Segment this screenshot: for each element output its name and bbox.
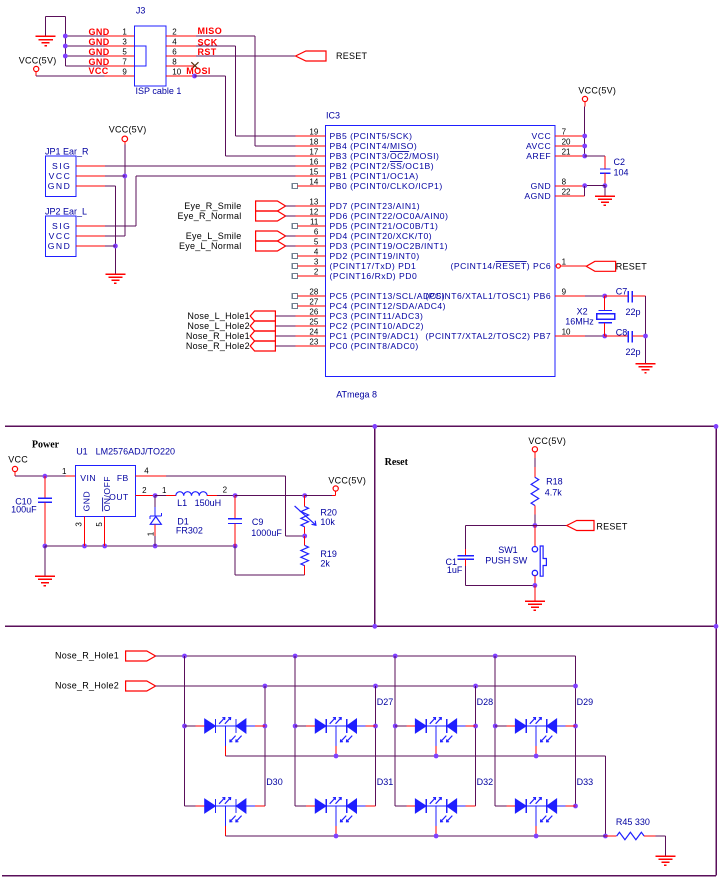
svg-text:JP2 Ear_L: JP2 Ear_L — [45, 207, 87, 217]
svg-text:23: 23 — [309, 337, 318, 346]
svg-text:D27: D27 — [377, 697, 394, 707]
svg-text:GND: GND — [89, 27, 110, 37]
svg-text:4: 4 — [144, 466, 149, 475]
svg-text:PC2 (PCINT10/ADC2): PC2 (PCINT10/ADC2) — [330, 321, 424, 331]
svg-text:18: 18 — [309, 137, 318, 146]
svg-text:PD4 (PCINT20/XCK/T0): PD4 (PCINT20/XCK/T0) — [330, 231, 433, 241]
svg-text:AREF: AREF — [526, 151, 551, 161]
svg-text:28: 28 — [309, 287, 318, 296]
svg-text:PC0 (PCINT8/ADC0): PC0 (PCINT8/ADC0) — [330, 341, 419, 351]
svg-text:Reset: Reset — [385, 457, 409, 468]
svg-text:LM2576ADJ/TO220: LM2576ADJ/TO220 — [96, 447, 175, 457]
svg-text:(PCINT7/XTAL2/TOSC2) PB7: (PCINT7/XTAL2/TOSC2) PB7 — [425, 331, 551, 341]
svg-text:C7: C7 — [616, 286, 628, 296]
svg-text:2: 2 — [314, 267, 319, 276]
svg-text:Eye_L_Normal: Eye_L_Normal — [179, 241, 242, 251]
svg-text:24: 24 — [309, 327, 318, 336]
svg-text:AGND: AGND — [524, 191, 551, 201]
svg-text:13: 13 — [309, 197, 318, 206]
svg-text:5: 5 — [122, 47, 127, 56]
svg-text:PB4 (PCINT4/MISO): PB4 (PCINT4/MISO) — [330, 141, 418, 151]
svg-text:PD3 (PCINT19/OC2B/INT1): PD3 (PCINT19/OC2B/INT1) — [330, 241, 448, 251]
svg-text:SIG: SIG — [52, 161, 71, 171]
svg-text:IC3: IC3 — [326, 111, 340, 121]
svg-text:27: 27 — [309, 297, 318, 306]
svg-text:PC4 (PCINT12/SDA/ADC4): PC4 (PCINT12/SDA/ADC4) — [330, 301, 447, 311]
svg-text:FB: FB — [117, 473, 129, 483]
svg-text:C9: C9 — [252, 517, 264, 527]
svg-text:PB1 (PCINT1/OC1A): PB1 (PCINT1/OC1A) — [330, 171, 419, 181]
svg-text:2: 2 — [223, 486, 228, 495]
svg-text:1: 1 — [146, 531, 155, 536]
svg-text:20: 20 — [562, 137, 571, 146]
svg-text:MISO: MISO — [198, 26, 223, 36]
svg-text:(PCINT17/TxD) PD1: (PCINT17/TxD) PD1 — [330, 261, 417, 271]
svg-text:9: 9 — [122, 67, 127, 76]
svg-text:2k: 2k — [320, 558, 330, 568]
svg-text:26: 26 — [309, 307, 318, 316]
svg-text:VCC(5V): VCC(5V) — [578, 86, 616, 96]
svg-text:7: 7 — [122, 57, 127, 66]
svg-text:Eye_L_Smile: Eye_L_Smile — [186, 231, 242, 241]
svg-text:Nose_R_Hole2: Nose_R_Hole2 — [55, 681, 119, 691]
svg-text:25: 25 — [309, 317, 318, 326]
svg-text:14: 14 — [309, 177, 318, 186]
svg-text:22p: 22p — [626, 347, 641, 357]
svg-text:VCC(5V): VCC(5V) — [528, 436, 566, 446]
svg-text:GND: GND — [81, 491, 91, 512]
svg-text:VCC(5V): VCC(5V) — [19, 55, 57, 65]
svg-text:X2: X2 — [577, 306, 588, 316]
svg-text:D30: D30 — [266, 777, 283, 787]
svg-text:4.7k: 4.7k — [545, 487, 563, 497]
svg-text:19: 19 — [309, 127, 318, 136]
svg-text:R45 330: R45 330 — [616, 817, 650, 827]
svg-text:(PCINT14/RESET) PC6: (PCINT14/RESET) PC6 — [450, 261, 551, 271]
svg-text:100uF: 100uF — [11, 505, 37, 515]
svg-text:Nose_R_Hole1: Nose_R_Hole1 — [186, 331, 250, 341]
svg-text:RESET: RESET — [596, 521, 628, 531]
svg-text:RESET: RESET — [616, 261, 648, 271]
svg-text:6: 6 — [314, 227, 319, 236]
svg-text:GND: GND — [89, 47, 110, 57]
svg-text:R18: R18 — [546, 477, 563, 487]
svg-text:D33: D33 — [577, 777, 594, 787]
svg-text:PD5 (PCINT21/OC0B/T1): PD5 (PCINT21/OC0B/T1) — [330, 221, 439, 231]
svg-text:PB0 (PCINT0/CLKO/ICP1): PB0 (PCINT0/CLKO/ICP1) — [330, 181, 443, 191]
svg-text:ON/OFF: ON/OFF — [102, 476, 112, 511]
svg-text:4: 4 — [172, 37, 177, 46]
svg-text:10k: 10k — [320, 517, 335, 527]
svg-text:RST: RST — [198, 47, 217, 57]
svg-text:VCC(5V): VCC(5V) — [109, 125, 147, 135]
svg-text:3: 3 — [74, 522, 83, 527]
svg-text:(PCINT6/XTAL1/TOSC1) PB6: (PCINT6/XTAL1/TOSC1) PB6 — [425, 291, 551, 301]
svg-text:SW1: SW1 — [498, 545, 518, 555]
svg-text:VCC: VCC — [532, 131, 552, 141]
svg-text:ATmega 8: ATmega 8 — [336, 390, 377, 400]
svg-text:150uH: 150uH — [195, 498, 222, 508]
svg-text:16MHz: 16MHz — [565, 317, 594, 327]
svg-text:17: 17 — [309, 147, 318, 156]
svg-text:3: 3 — [122, 37, 127, 46]
svg-text:16: 16 — [309, 157, 318, 166]
svg-text:22p: 22p — [626, 307, 641, 317]
svg-text:2: 2 — [172, 27, 177, 36]
svg-text:104: 104 — [614, 167, 629, 177]
svg-text:VCC: VCC — [49, 171, 72, 181]
svg-text:12: 12 — [309, 207, 318, 216]
svg-text:GND: GND — [48, 181, 72, 191]
svg-text:Nose_L_Hole1: Nose_L_Hole1 — [187, 311, 250, 321]
svg-text:3: 3 — [314, 257, 319, 266]
svg-text:FR302: FR302 — [176, 525, 203, 535]
svg-text:1: 1 — [122, 27, 127, 36]
svg-text:SCK: SCK — [198, 37, 218, 47]
svg-text:8: 8 — [562, 177, 567, 186]
svg-text:PB3 (PCINT3/OC2/MOSI): PB3 (PCINT3/OC2/MOSI) — [330, 151, 440, 161]
svg-text:SIG: SIG — [52, 221, 71, 231]
svg-text:7: 7 — [562, 127, 567, 136]
svg-text:ISP cable 1: ISP cable 1 — [136, 86, 182, 96]
svg-text:GND: GND — [48, 241, 72, 251]
svg-text:15: 15 — [309, 167, 318, 176]
svg-text:(PCINT16/RxD) PD0: (PCINT16/RxD) PD0 — [330, 271, 418, 281]
svg-text:6: 6 — [172, 47, 177, 56]
svg-text:VCC(5V): VCC(5V) — [328, 476, 366, 486]
svg-text:PUSH SW: PUSH SW — [485, 556, 528, 566]
svg-text:VCC: VCC — [49, 231, 72, 241]
svg-text:1uF: 1uF — [447, 565, 463, 575]
svg-text:C8: C8 — [616, 327, 628, 337]
svg-text:1: 1 — [62, 467, 67, 476]
svg-text:AVCC: AVCC — [526, 141, 551, 151]
svg-text:Eye_R_Normal: Eye_R_Normal — [177, 211, 241, 221]
svg-text:Nose_L_Hole2: Nose_L_Hole2 — [187, 321, 250, 331]
svg-text:PD6 (PCINT22/OC0A/AIN0): PD6 (PCINT22/OC0A/AIN0) — [330, 211, 449, 221]
svg-text:R19: R19 — [320, 549, 337, 559]
svg-text:9: 9 — [562, 287, 567, 296]
svg-text:11: 11 — [310, 217, 319, 226]
svg-text:Nose_R_Hole1: Nose_R_Hole1 — [55, 651, 119, 661]
svg-text:R20: R20 — [320, 507, 337, 517]
svg-text:VCC: VCC — [8, 455, 28, 465]
svg-text:VIN: VIN — [80, 473, 96, 483]
svg-text:D31: D31 — [377, 777, 394, 787]
svg-text:1: 1 — [562, 257, 567, 266]
svg-text:VCC: VCC — [89, 66, 109, 76]
svg-text:5: 5 — [314, 237, 319, 246]
svg-text:1: 1 — [162, 486, 167, 495]
svg-text:U1: U1 — [76, 447, 88, 457]
svg-text:RESET: RESET — [336, 51, 368, 61]
svg-text:JP1 Ear_R: JP1 Ear_R — [45, 147, 89, 157]
svg-text:4: 4 — [314, 247, 319, 256]
svg-text:1000uF: 1000uF — [251, 528, 282, 538]
svg-text:MOSI: MOSI — [186, 66, 211, 76]
svg-text:PC3 (PCINT11/ADC3): PC3 (PCINT11/ADC3) — [330, 311, 424, 321]
svg-text:5: 5 — [95, 522, 104, 527]
svg-text:GND: GND — [89, 37, 110, 47]
svg-text:10: 10 — [562, 327, 571, 336]
svg-text:21: 21 — [562, 147, 571, 156]
svg-text:PB2 (PCINT2/SS/OC1B): PB2 (PCINT2/SS/OC1B) — [330, 161, 435, 171]
svg-text:D32: D32 — [477, 777, 494, 787]
svg-text:8: 8 — [172, 57, 177, 66]
svg-text:C2: C2 — [614, 157, 626, 167]
svg-text:Nose_R_Hole2: Nose_R_Hole2 — [186, 341, 250, 351]
svg-text:Eye_R_Smile: Eye_R_Smile — [184, 201, 241, 211]
svg-text:22: 22 — [562, 187, 571, 196]
svg-text:PC1 (PCINT9/ADC1): PC1 (PCINT9/ADC1) — [330, 331, 419, 341]
svg-text:GND: GND — [531, 181, 552, 191]
svg-text:10: 10 — [172, 67, 181, 76]
svg-text:J3: J3 — [136, 6, 146, 16]
svg-text:D29: D29 — [577, 697, 594, 707]
svg-text:L1: L1 — [177, 498, 187, 508]
svg-text:PD2 (PCINT19/INT0): PD2 (PCINT19/INT0) — [330, 251, 420, 261]
svg-text:D28: D28 — [477, 697, 494, 707]
svg-text:2: 2 — [142, 486, 147, 495]
svg-text:PD7 (PCINT23/AIN1): PD7 (PCINT23/AIN1) — [330, 201, 421, 211]
svg-text:PB5 (PCINT5/SCK): PB5 (PCINT5/SCK) — [330, 131, 413, 141]
svg-text:Power: Power — [32, 439, 60, 450]
